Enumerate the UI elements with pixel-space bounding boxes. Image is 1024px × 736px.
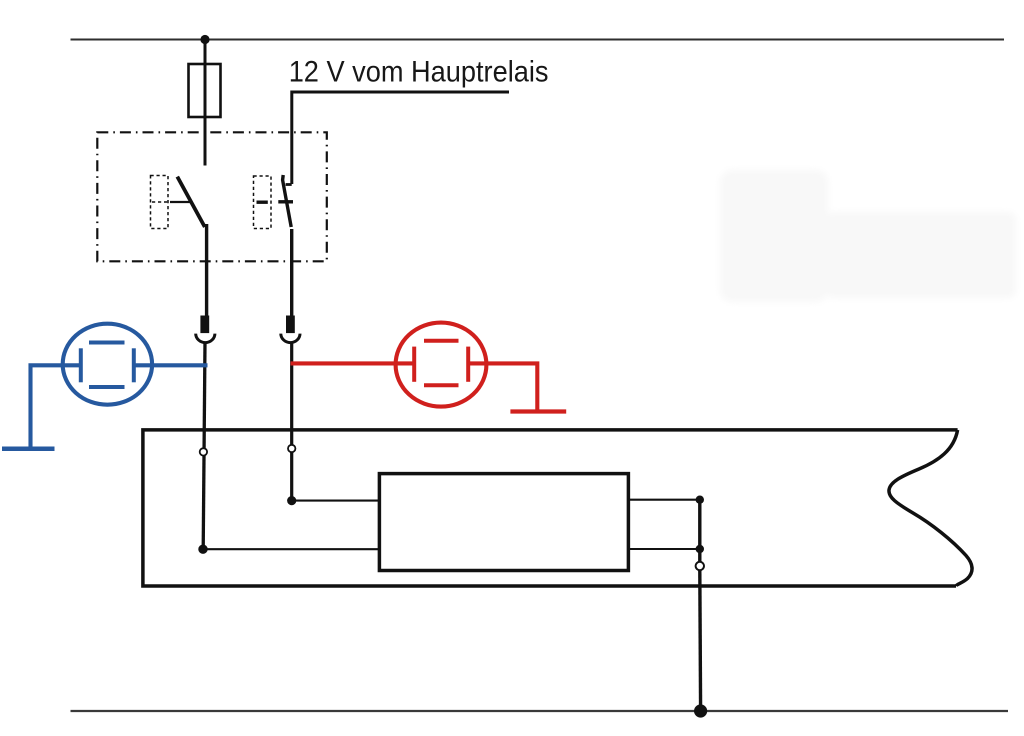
svg-text:12 V vom Hauptrelais: 12 V vom Hauptrelais — [289, 55, 549, 88]
